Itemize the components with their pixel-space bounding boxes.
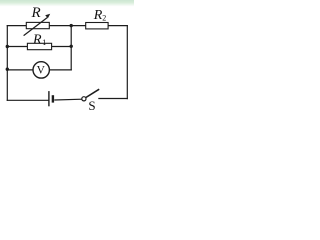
wire top-left segment [7, 25, 26, 27]
svg-text:R2: R2 [93, 8, 107, 23]
switch S [82, 89, 99, 101]
wire voltmeter right [50, 69, 72, 71]
wire top-right segment [108, 25, 127, 27]
node junction R1-branch [70, 45, 73, 48]
svg-text:V: V [37, 65, 46, 77]
resistor R2 [86, 23, 108, 29]
node junction left-R1 [6, 45, 9, 48]
wire battery to switch [55, 98, 82, 101]
wire middle branch vertical [70, 26, 72, 70]
wire R1 row left [7, 46, 27, 48]
svg-text:R: R [31, 5, 41, 21]
wire R1 row right [52, 46, 72, 48]
svg-text:S: S [88, 98, 95, 113]
node junction left-voltmeter [6, 68, 9, 71]
battery cell [49, 91, 54, 106]
resistor R1 [27, 43, 51, 49]
wire right vertical [126, 26, 128, 99]
wire bottom-left segment [7, 99, 48, 101]
voltmeter V [33, 62, 49, 78]
resistor R (variable) [24, 14, 51, 36]
wire left vertical [6, 26, 8, 101]
node junction top-branch [70, 24, 73, 27]
wire switch to bottom-right corner [99, 98, 127, 100]
wire top-middle segment [49, 25, 85, 27]
wire voltmeter left [7, 69, 33, 71]
svg-text:R1: R1 [32, 33, 46, 48]
